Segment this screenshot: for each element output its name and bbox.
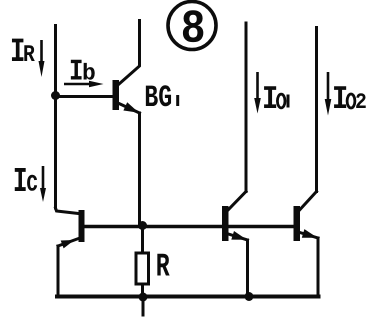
current arrow IR — [40, 40, 43, 63]
wire BG4 collector diagonal — [300, 192, 317, 210]
label IR — [12, 39, 23, 61]
wire I01 output branch vertical — [245, 23, 248, 192]
wire resistor top lead — [141, 227, 144, 253]
node A junction IR / BG1 base — [51, 91, 60, 100]
wire I02 output branch vertical — [315, 28, 318, 192]
wire BG1 base horizontal — [56, 95, 113, 98]
wire BG3 emitter vertical — [246, 240, 249, 297]
node D junction bottom rail / BG3 emitter — [245, 292, 254, 301]
label BG1 — [146, 86, 158, 106]
wire BG1 emitter vertical to base rail — [138, 113, 141, 225]
wire common base rail — [85, 225, 294, 229]
transistor BG3 emitter arrow — [231, 231, 247, 240]
current arrow I02 — [327, 72, 330, 101]
wire BG3 collector diagonal — [229, 192, 247, 210]
resistor R value label — [157, 254, 169, 276]
wire bottom stub — [142, 298, 145, 315]
node B junction base rail / BG1 emitter / R — [138, 221, 147, 230]
transistor BG4 emitter arrow — [302, 229, 318, 238]
current arrow Ib — [64, 83, 90, 86]
figure number circle — [168, 2, 216, 50]
transistor BG2 emitter arrow — [61, 240, 75, 248]
wire left reference branch vertical — [54, 26, 57, 209]
wire BG1 emitter diagonal — [119, 104, 140, 114]
transistor BG1 emitter arrow — [123, 102, 138, 112]
resistor R body — [136, 253, 149, 284]
current arrow I01 — [256, 72, 259, 100]
label Ic — [15, 168, 26, 191]
wire BG2 collector elbow — [56, 208, 79, 214]
wire BG1 collector to top supply — [119, 21, 140, 85]
label I02 — [334, 86, 346, 108]
figure number 8 — [183, 10, 203, 42]
wire bottom rail — [57, 295, 319, 299]
wire resistor bottom lead — [141, 285, 144, 297]
wire BG4 emitter vertical — [317, 238, 320, 297]
current arrow Ic — [42, 166, 45, 190]
node C junction bottom rail / R — [139, 293, 148, 302]
transistor BG4 base bar — [294, 206, 301, 241]
wire BG3 emitter diagonal — [229, 234, 248, 240]
label I01 — [264, 86, 276, 108]
wire BG4 emitter diagonal — [300, 233, 318, 239]
transistor BG2 base bar — [79, 210, 85, 242]
label Ib — [71, 60, 82, 80]
wire BG2 emitter vertical — [57, 246, 60, 297]
wire BG2 emitter diagonal — [58, 239, 79, 247]
transistor BG1 base bar — [113, 80, 120, 110]
transistor BG3 base bar — [222, 206, 229, 241]
